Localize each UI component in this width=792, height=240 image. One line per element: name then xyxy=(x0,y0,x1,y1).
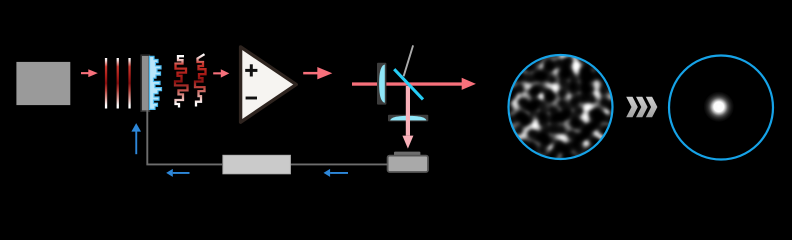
amplifier op-amp triangle xyxy=(241,47,297,122)
lens L1 (vertical) xyxy=(377,63,386,105)
plane wavefront 3 xyxy=(128,58,130,109)
laser source box xyxy=(16,62,70,105)
reflected beam down xyxy=(402,86,413,149)
chevron 1 xyxy=(626,97,638,117)
beam arrow A2 xyxy=(213,69,229,77)
beam splitter xyxy=(394,69,423,99)
SLM deformable surface xyxy=(150,56,162,109)
wire controller to SLM xyxy=(147,110,223,164)
plane wavefront 2 xyxy=(117,58,119,109)
minus input label xyxy=(246,97,257,100)
focus circle outline xyxy=(669,56,773,160)
feedback controller box xyxy=(223,155,291,174)
chevron 2 xyxy=(636,97,648,117)
chevron 3 xyxy=(646,97,658,117)
lens L2 (horizontal) xyxy=(388,115,428,122)
distorted wavefront W1 xyxy=(175,56,188,107)
speckle pattern disc xyxy=(503,50,618,165)
beam arrow A3 xyxy=(303,67,332,79)
main output beam xyxy=(352,78,476,90)
beam arrow A1 xyxy=(81,69,98,77)
detector body xyxy=(388,156,428,172)
blue left arrow 1 xyxy=(166,169,189,177)
distorted wavefront W2 xyxy=(195,54,206,106)
plus input label xyxy=(245,64,257,76)
plane wavefront 1 xyxy=(105,58,107,109)
blue up arrow xyxy=(131,123,141,154)
blue left arrow 2 xyxy=(324,169,349,177)
pick-off glass rod xyxy=(404,45,414,76)
wire detector to controller xyxy=(290,163,387,165)
detector top bar xyxy=(394,152,420,156)
speckle circle outline xyxy=(509,55,613,159)
SLM plate xyxy=(141,55,149,111)
focused spot disc xyxy=(704,92,734,122)
